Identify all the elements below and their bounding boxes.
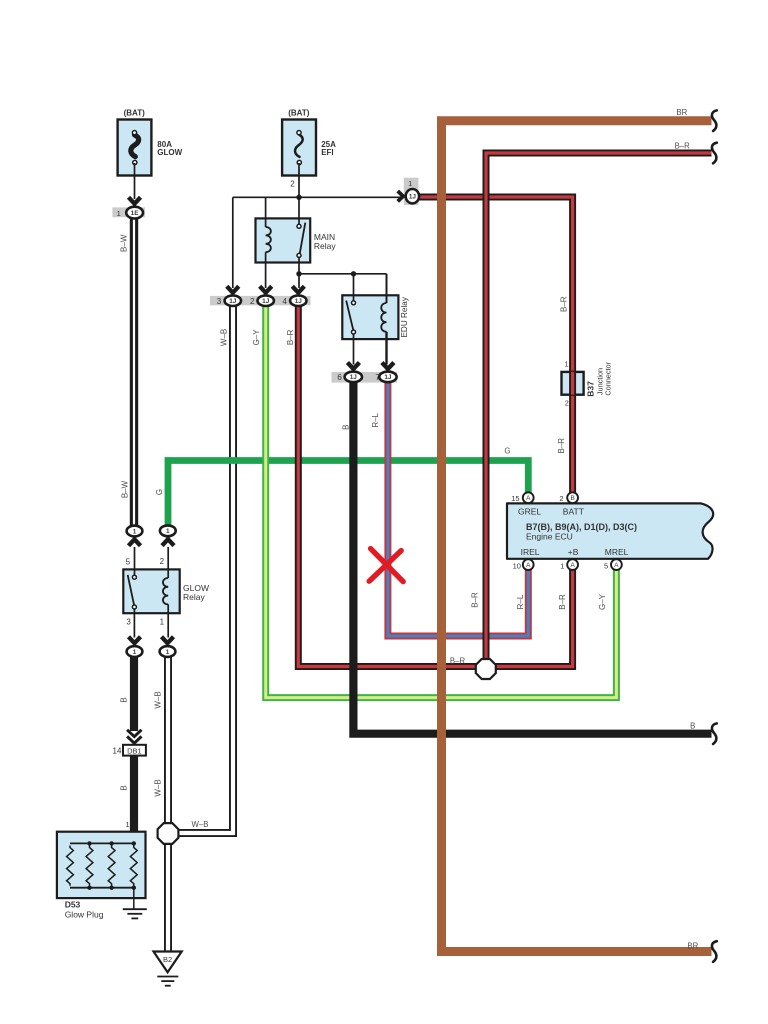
svg-text:BR: BR bbox=[687, 942, 698, 951]
svg-text:1: 1 bbox=[126, 820, 130, 829]
svg-text:B: B bbox=[690, 722, 695, 731]
svg-text:1: 1 bbox=[133, 649, 137, 656]
svg-text:IREL: IREL bbox=[521, 547, 540, 557]
svg-text:B–W: B–W bbox=[120, 234, 129, 252]
svg-text:G: G bbox=[155, 489, 164, 495]
svg-text:A: A bbox=[570, 562, 575, 569]
svg-text:Glow Plug: Glow Plug bbox=[65, 910, 104, 920]
svg-text:B37: B37 bbox=[586, 381, 596, 397]
svg-text:1J: 1J bbox=[262, 298, 270, 305]
svg-text:7: 7 bbox=[375, 373, 380, 382]
svg-text:B: B bbox=[120, 785, 129, 790]
svg-text:2: 2 bbox=[250, 297, 255, 306]
svg-text:EFI: EFI bbox=[321, 148, 333, 157]
svg-text:G–Y: G–Y bbox=[598, 593, 607, 610]
svg-text:2: 2 bbox=[160, 557, 165, 566]
svg-text:5: 5 bbox=[126, 558, 131, 567]
svg-text:B: B bbox=[570, 495, 574, 502]
svg-text:Connector: Connector bbox=[603, 361, 612, 395]
svg-text:3: 3 bbox=[217, 297, 222, 306]
svg-text:B: B bbox=[342, 425, 351, 430]
svg-text:14: 14 bbox=[113, 747, 122, 756]
svg-text:B–R: B–R bbox=[286, 329, 295, 345]
svg-text:6: 6 bbox=[337, 373, 342, 382]
svg-text:W–B: W–B bbox=[154, 779, 163, 796]
svg-text:1: 1 bbox=[166, 649, 170, 656]
svg-text:1: 1 bbox=[133, 528, 137, 535]
svg-text:B–R: B–R bbox=[557, 438, 566, 454]
svg-text:R–L: R–L bbox=[371, 412, 380, 427]
svg-text:W–B: W–B bbox=[154, 691, 163, 708]
svg-text:2: 2 bbox=[559, 494, 563, 503]
svg-text:1J: 1J bbox=[409, 194, 417, 201]
svg-text:1: 1 bbox=[117, 209, 121, 218]
svg-text:1: 1 bbox=[565, 362, 569, 369]
svg-text:1J: 1J bbox=[229, 298, 237, 305]
svg-text:G: G bbox=[504, 447, 510, 456]
svg-text:Relay: Relay bbox=[183, 592, 205, 602]
svg-text:15: 15 bbox=[511, 494, 519, 503]
svg-text:D53: D53 bbox=[65, 899, 81, 909]
svg-text:1J: 1J bbox=[295, 298, 303, 305]
svg-text:2: 2 bbox=[565, 401, 569, 408]
svg-text:B: B bbox=[120, 697, 129, 702]
svg-text:DB1: DB1 bbox=[127, 747, 142, 756]
svg-text:1E: 1E bbox=[131, 210, 140, 217]
svg-text:GREL: GREL bbox=[518, 506, 541, 516]
svg-text:B–R: B–R bbox=[560, 296, 569, 312]
svg-text:B7(B), B9(A), D1(D), D3(C): B7(B), B9(A), D1(D), D3(C) bbox=[526, 522, 637, 532]
svg-text:1: 1 bbox=[408, 179, 412, 188]
svg-text:A: A bbox=[614, 562, 619, 569]
svg-text:(BAT): (BAT) bbox=[124, 108, 146, 117]
svg-text:BR: BR bbox=[676, 108, 687, 117]
svg-text:4: 4 bbox=[282, 297, 287, 306]
svg-text:B–R: B–R bbox=[558, 594, 567, 610]
svg-text:1: 1 bbox=[166, 528, 170, 535]
svg-text:B–R: B–R bbox=[450, 657, 466, 666]
svg-text:1: 1 bbox=[160, 618, 165, 627]
svg-text:Engine ECU: Engine ECU bbox=[526, 532, 573, 542]
svg-text:MREL: MREL bbox=[605, 547, 629, 557]
svg-text:10: 10 bbox=[513, 561, 521, 570]
svg-text:3: 3 bbox=[126, 618, 131, 627]
svg-text:2: 2 bbox=[290, 179, 295, 188]
svg-text:A: A bbox=[526, 495, 531, 502]
svg-text:B–W: B–W bbox=[121, 480, 130, 498]
svg-text:R–L: R–L bbox=[516, 594, 525, 609]
svg-text:Relay: Relay bbox=[314, 241, 336, 251]
svg-text:B–R: B–R bbox=[675, 142, 691, 151]
svg-text:W–B: W–B bbox=[192, 820, 209, 829]
svg-text:(BAT): (BAT) bbox=[288, 108, 310, 117]
svg-text:GLOW: GLOW bbox=[157, 148, 182, 157]
svg-text:EDU Relay: EDU Relay bbox=[400, 296, 409, 337]
svg-text:B–R: B–R bbox=[470, 592, 479, 608]
svg-text:B2: B2 bbox=[163, 955, 172, 964]
svg-text:W–B: W–B bbox=[219, 329, 228, 346]
svg-text:A: A bbox=[526, 562, 531, 569]
svg-text:5: 5 bbox=[604, 561, 608, 570]
svg-text:1J: 1J bbox=[350, 374, 358, 381]
svg-text:+B: +B bbox=[568, 547, 579, 557]
svg-text:G–Y: G–Y bbox=[252, 329, 261, 346]
svg-text:1: 1 bbox=[560, 561, 564, 570]
svg-text:BATT: BATT bbox=[563, 506, 584, 516]
svg-text:1J: 1J bbox=[384, 374, 392, 381]
